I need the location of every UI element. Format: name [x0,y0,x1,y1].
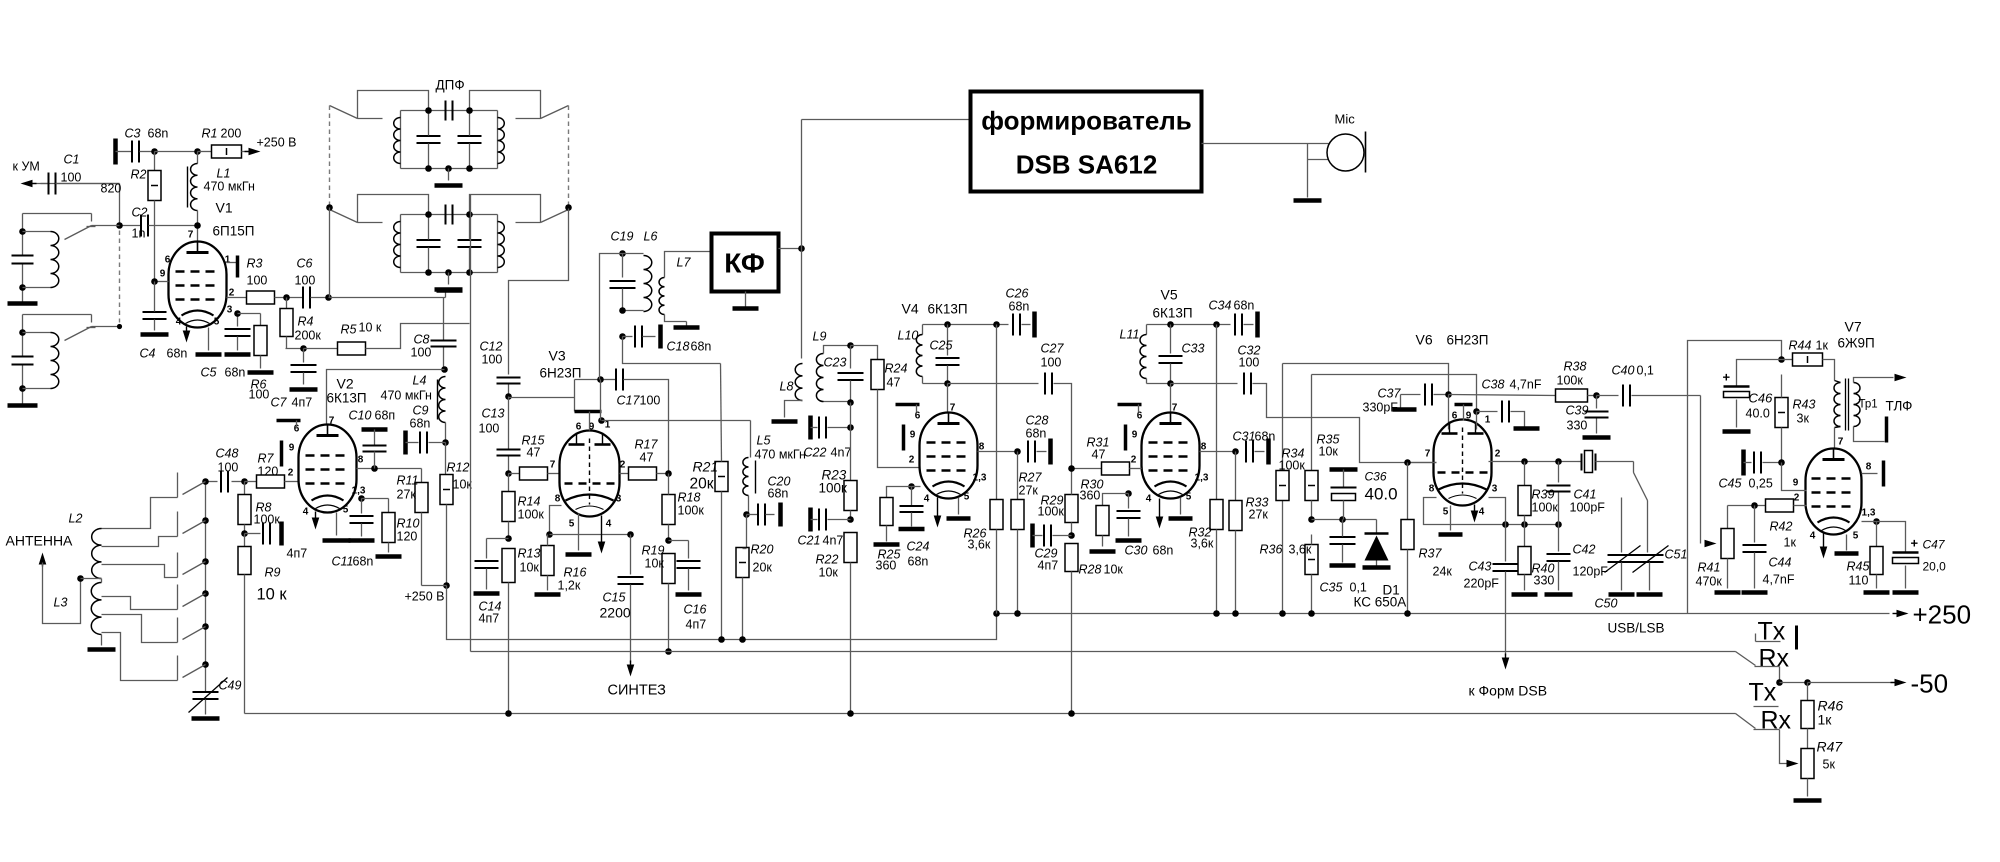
resistor R39 [1518,462,1558,525]
svg-text:100к: 100к [254,513,281,527]
svg-text:2: 2 [909,455,915,466]
capacitor C5 [201,314,251,380]
V5 cathode node [1125,490,1132,497]
transformer Tr1 [1834,379,1878,431]
svg-text:R5: R5 [341,323,357,337]
svg-text:R21: R21 [693,459,719,475]
resistor R38 [1556,360,1597,403]
svg-text:47: 47 [527,446,541,460]
V1 pin2 wire [227,297,247,299]
svg-text:40.0: 40.0 [1746,407,1770,421]
node R28 bus3 [1068,710,1075,717]
bank row 4 [178,585,209,610]
svg-text:V3: V3 [549,348,566,364]
svg-text:68n: 68n [1234,299,1255,313]
svg-text:R43: R43 [1793,398,1816,412]
svg-text:7: 7 [550,460,556,471]
node V5 pin8 [1232,448,1239,455]
svg-text:68п: 68п [375,409,396,423]
svg-text:6К13П: 6К13П [327,391,367,406]
svg-text:7: 7 [1425,449,1431,460]
tank2 node b [19,385,26,392]
svg-text:20к: 20к [753,561,773,575]
svg-text:1,3: 1,3 [1195,473,1209,484]
DPF filter block 1 [330,91,569,186]
svg-text:R27: R27 [1019,471,1043,485]
svg-text:100к: 100к [819,481,848,496]
svg-text:10к: 10к [520,561,540,575]
svg-text:L9: L9 [813,330,827,344]
node to UM arrow [21,180,37,188]
wire [154,201,156,282]
svg-text:4п7: 4п7 [287,547,308,561]
inductor L9 [813,330,851,402]
V5 pin numbers [1131,403,1209,505]
svg-text:C23: C23 [824,356,847,370]
svg-text:0,1: 0,1 [1637,364,1654,378]
label k UM [13,160,40,174]
node -50 a [1776,679,1783,686]
svg-text:+: + [1723,370,1731,385]
V4 top wire [923,324,1009,326]
potentiometer R41 [1696,506,1741,593]
svg-text:R7: R7 [258,452,275,466]
V5 pin9 bar [1124,425,1128,451]
resistor R23 [819,468,858,520]
node C8-L4 [441,366,448,373]
tube V2 [299,425,357,513]
ground tank1 [8,301,38,306]
KF right wire [779,248,802,250]
capacitor C36 [1330,470,1398,520]
node R12 bottom [443,582,450,589]
svg-text:820: 820 [101,182,122,196]
svg-text:68n: 68n [1255,430,1276,444]
V7 pin13 wire [1862,521,1877,523]
node C48-R8 [241,478,248,485]
svg-text:5: 5 [214,317,220,328]
svg-text:V6: V6 [1416,332,1433,348]
capacitor C28 [1026,414,1051,465]
svg-text:C48: C48 [216,447,239,461]
R41 wiper feed [1701,396,1717,548]
microphone Mic [1308,112,1366,198]
V7 pin8 bar [1862,461,1884,487]
capacitor C51 [1633,501,1688,595]
svg-text:R47: R47 [1817,739,1844,755]
svg-text:C31: C31 [1233,430,1256,444]
wire R38 line [1449,395,1557,396]
resistor R37 [1401,463,1452,614]
V5 pin5 bar [1169,498,1193,519]
inductor L6 [623,230,658,312]
svg-text:R10: R10 [397,517,420,531]
capacitor C17 [597,369,668,473]
svg-text:C28: C28 [1026,414,1049,428]
tank2 node a [19,329,26,336]
terminal bar [437,291,463,298]
svg-text:1к: 1к [1818,712,1833,728]
svg-text:110: 110 [1849,574,1869,588]
node DPF left [326,204,333,211]
svg-text:68n: 68n [691,340,712,354]
capacitor C35 [1320,520,1367,595]
resistor R22 [816,533,858,714]
node V5 top b [1213,321,1220,328]
V2 pin7 feed wire [327,370,445,425]
svg-text:Tx: Tx [1749,679,1777,707]
svg-text:7: 7 [950,403,956,414]
svg-text:6К13П: 6К13П [1153,306,1193,321]
svg-text:470 мкГн: 470 мкГн [204,180,255,194]
svg-text:10 к: 10 к [257,586,288,604]
resistor R43 [1775,375,1815,463]
node R42-C44 [1751,502,1758,509]
svg-text:0,25: 0,25 [1749,477,1773,491]
svg-text:6: 6 [915,411,921,422]
V3 pin5 ground [566,514,592,555]
svg-text:R20: R20 [751,543,774,557]
svg-text:C25: C25 [930,339,953,353]
inductor L4 [381,374,446,443]
capacitor C44 [1742,506,1795,593]
capacitor C47 [1877,522,1947,593]
svg-text:R36: R36 [1260,543,1283,557]
svg-text:360: 360 [1080,489,1101,503]
node V6 out a [1521,458,1528,465]
svg-text:R12: R12 [447,461,470,475]
node V6 pin1 [1473,408,1480,415]
svg-text:2: 2 [1131,455,1137,466]
resistor R31 [1072,436,1142,476]
svg-text:4п7: 4п7 [292,396,313,410]
antenna arrow [39,553,81,624]
V6 pin1 stem [1476,412,1478,430]
node C15 top [627,531,634,538]
tank1 node a [19,228,26,235]
svg-text:ДПФ: ДПФ [436,78,465,93]
svg-text:470 мкГн: 470 мкГн [381,389,432,403]
svg-text:20к: 20к [690,476,714,493]
svg-text:L5: L5 [757,434,771,448]
bank row 5 [178,618,209,643]
node C37 right [1445,391,1452,398]
node R1 [194,148,201,155]
svg-text:C16: C16 [684,603,707,617]
node V1 pin7 [194,222,201,229]
V4 pin numbers [909,403,987,505]
wire pin1 line down to L5 [750,421,752,458]
svg-text:4: 4 [1810,531,1816,542]
capacitor C39 [1566,396,1611,438]
svg-text:8: 8 [1429,484,1435,495]
wire DPF left to C6 node [329,208,331,298]
resistor R35 [1305,375,1339,520]
svg-text:6К13П: 6К13П [928,302,968,317]
switch bank bus [205,482,207,692]
wire C18 node down [623,337,721,364]
V5 pin8 wire [1200,451,1236,453]
resistor R7 [245,452,299,489]
resistor R16 [535,535,587,595]
resistor R45 [1847,522,1890,593]
wire [155,151,198,153]
svg-text:100к: 100к [1279,459,1306,473]
node C21 node [847,516,854,523]
svg-text:2: 2 [1794,493,1800,504]
V4 pin6 bar [896,405,920,413]
svg-text:100pF: 100pF [1570,501,1606,515]
bank row 3 [178,553,209,578]
V5 top wire [1147,324,1231,326]
svg-text:R39: R39 [1532,488,1555,502]
svg-text:120: 120 [397,530,418,544]
node R18-R19 [665,537,672,544]
svg-text:R18: R18 [678,491,701,505]
svg-text:C6: C6 [297,257,313,271]
svg-text:68n: 68n [167,347,188,361]
node C19 bottom [619,307,626,314]
resistor R44 [1782,339,1835,381]
svg-text:100к: 100к [678,504,705,518]
label V4 [902,301,968,317]
svg-text:C8: C8 [414,333,430,347]
wire [33,184,120,226]
ground L3 [88,647,116,652]
capacitor C37 [1363,384,1449,415]
svg-text:10к: 10к [1319,445,1339,459]
k Form DSB arrow [1469,654,1548,699]
node R37 bus1 [1404,610,1411,617]
svg-text:470 мкГн: 470 мкГн [755,448,806,462]
svg-text:8: 8 [1866,462,1872,473]
V7 pin1,3 node [1873,518,1880,525]
capacitor C32 [1238,344,1437,463]
svg-text:4n7: 4n7 [831,446,852,460]
svg-text:R16: R16 [564,566,587,580]
svg-text:8: 8 [555,494,561,505]
svg-text:КФ: КФ [724,248,765,279]
svg-text:R11: R11 [397,474,419,488]
node R32 bus1 [1213,610,1220,617]
V7 pin numbers [1793,437,1876,542]
node C29 node [1068,532,1075,539]
svg-text:68n: 68n [148,127,169,141]
svg-text:R38: R38 [1564,360,1587,374]
tank2 coil [23,333,59,389]
svg-text:220pF: 220pF [1464,577,1500,591]
svg-text:1к: 1к [1784,536,1797,550]
Tr1 secondary top [1854,374,1907,383]
svg-text:1n: 1n [132,227,146,241]
V4 pin9 bar [902,425,906,451]
tank1 capacitor [12,256,34,264]
zener D1 [1354,520,1407,610]
capacitor C10 [349,409,396,469]
label 6P15P [213,224,255,239]
node R19 bus2 [665,648,672,655]
svg-text:R13: R13 [518,547,541,561]
node C18 top [619,333,626,340]
variable capacitor C49 [189,678,242,719]
svg-text:200к: 200к [295,329,322,343]
bank row 6 [178,656,209,681]
svg-text:100: 100 [247,274,268,288]
node R38 out [1593,392,1600,399]
wire DSB line [802,119,971,121]
resistor R20 [736,515,773,640]
node KF out [798,245,805,252]
wire pin1 to L5 [602,420,751,422]
svg-text:C40: C40 [1612,364,1635,378]
svg-text:ТЛФ: ТЛФ [1886,399,1913,414]
capacitor C25 [930,325,960,384]
node -50 b [1804,679,1811,686]
svg-text:R37: R37 [1419,547,1443,561]
V4 pin5 bar [947,498,971,519]
svg-text:C43: C43 [1469,560,1492,574]
capacitor C50 [1595,498,1641,611]
block KF box [712,234,779,292]
+250V arrow [242,136,297,156]
svg-text:120: 120 [258,465,279,479]
svg-text:C21: C21 [798,534,821,548]
svg-text:6: 6 [1452,411,1458,422]
V6 pin4 arrow [1471,505,1479,523]
node pin3 loop a [1502,521,1509,528]
node C3-R2 [151,148,158,155]
svg-text:68n: 68n [410,417,431,431]
capacitor C15 [600,535,644,663]
label ANTENNA [6,533,74,549]
capacitor C34 [1209,299,1258,338]
V6 pin3 wire [1489,498,1506,525]
capacitor C3 [116,127,169,165]
svg-text:2: 2 [1495,449,1501,460]
svg-text:+250 В: +250 В [257,136,297,150]
svg-text:4: 4 [924,494,930,505]
V6 pin8 loop [1424,498,1559,525]
svg-text:C5: C5 [201,366,217,380]
svg-text:C19: C19 [611,230,634,244]
capacitor C18 [623,325,712,354]
V1 pin4 arrow [183,327,191,343]
svg-text:к Форм DSB: к Форм DSB [1469,683,1548,699]
svg-text:L3: L3 [54,596,68,610]
svg-text:100: 100 [61,171,82,185]
-50 arrow [1808,669,1949,699]
svg-text:R4: R4 [298,315,314,329]
svg-text:L2: L2 [69,512,83,526]
svg-text:СИНТЕЗ: СИНТЕЗ [608,683,667,699]
node DPF right [565,204,572,211]
svg-text:C34: C34 [1209,299,1232,313]
node V5 pin7 [1167,380,1174,387]
resistor R26 [964,325,1004,614]
potentiometer R47 [1794,739,1844,801]
V1 pin numbers [160,230,235,328]
svg-text:V7: V7 [1845,319,1862,335]
DPF filter block 2 [330,195,569,290]
svg-text:R3: R3 [247,257,263,271]
V6 pin5 ground [1439,506,1463,535]
svg-text:R41: R41 [1698,561,1721,575]
V4 pin4 arrow [934,498,942,528]
svg-text:к УМ: к УМ [13,160,40,174]
inductor L10 [898,325,948,384]
tube V7 [1806,449,1862,535]
svg-text:2: 2 [620,460,626,471]
svg-text:V1: V1 [216,200,233,216]
svg-text:1: 1 [1485,415,1491,426]
wire +250 riser right [1688,341,1782,614]
bank row 1 [178,473,209,498]
node C13 bottom [505,470,512,477]
ground mic [1294,198,1322,203]
capacitor C6 [295,257,329,309]
svg-text:4: 4 [1146,494,1152,505]
svg-text:5: 5 [343,505,349,516]
svg-text:L10: L10 [898,329,919,343]
svg-text:R28: R28 [1079,563,1102,577]
resistor R3 [247,257,275,305]
svg-text:0,1: 0,1 [1350,581,1367,595]
capacitor C46 [1723,360,1782,432]
svg-text:68n: 68n [1026,427,1047,441]
svg-text:1,3: 1,3 [352,486,366,497]
svg-text:10 к: 10 к [359,321,382,335]
capacitor C13 [479,397,521,474]
svg-text:R9: R9 [265,566,281,580]
bank row 2 [178,512,209,537]
V3 pin8 wire [550,506,562,535]
capacitor C27 [1041,342,1072,469]
tank1 switch [65,214,120,240]
resistor R42 [1728,499,1807,550]
switch TxRx 1 [1736,618,1797,683]
svg-text:7: 7 [329,416,335,427]
svg-text:L6: L6 [644,230,658,244]
svg-text:C30: C30 [1125,544,1148,558]
coil taps [81,498,178,681]
resistor R40 [1512,525,1555,595]
svg-text:9: 9 [289,443,295,454]
tank1 coil [23,232,59,288]
tank2 left wire [22,315,24,405]
svg-text:C35: C35 [1320,581,1343,595]
svg-text:330: 330 [1567,419,1588,433]
node R26 bus1 [993,610,1000,617]
svg-text:9: 9 [910,430,916,441]
svg-text:C37: C37 [1378,387,1402,401]
resistor R24 [851,346,920,468]
svg-text:360: 360 [876,559,897,573]
svg-text:6Н23П: 6Н23П [540,366,582,381]
svg-text:C4: C4 [140,347,156,361]
node pin3 [234,310,241,317]
node V2 pin8 [371,465,378,472]
dashed gang line [119,231,121,323]
tube V4 [920,413,978,499]
resistor R18 [662,474,704,541]
svg-text:3: 3 [616,494,622,505]
wire [275,297,303,299]
svg-text:2: 2 [288,468,294,479]
V5 pin7 stem [1170,384,1172,413]
svg-text:R44: R44 [1789,339,1812,353]
wire lineB anode1 [1312,375,1477,412]
node R4 bottom [300,345,307,352]
